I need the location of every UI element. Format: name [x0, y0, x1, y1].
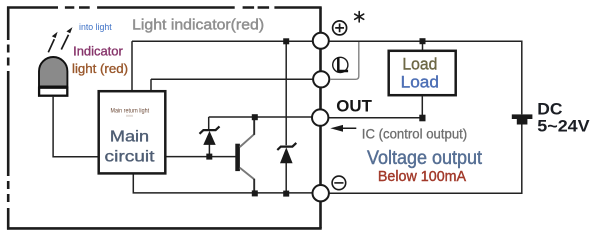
- transistor Q1 emitter lead: [253, 179, 255, 194]
- wire: drop from + rail into main circuit top: [131, 41, 133, 90]
- load box: [389, 51, 456, 95]
- transistor Q1 base bar: [235, 144, 240, 171]
- wire: + rail from T1 right to battery corner: [329, 41, 522, 114]
- svg-text:OUT: OUT: [336, 96, 372, 115]
- wire: LED to main circuit left: [53, 97, 98, 157]
- sensor enclosure frame: right edge / terminal bus: [319, 8, 322, 229]
- svg-text:into light: into light: [79, 22, 112, 32]
- wire: load bottom down to OUT line: [421, 96, 423, 117]
- wire: main circuit bottom to 0V rail: [133, 175, 312, 193]
- svg-text:Main return light: Main return light: [111, 108, 150, 115]
- svg-text:circuit: circuit: [105, 148, 156, 165]
- svg-text:Voltage output: Voltage output: [367, 148, 483, 169]
- LED indicator base: [39, 88, 67, 96]
- sensor enclosure dashed frame: left edge: [7, 7, 10, 230]
- sensor enclosure frame: bottom edge: [7, 227, 322, 230]
- svg-text:Below 100mA: Below 100mA: [378, 169, 466, 185]
- svg-text:Indicator: Indicator: [73, 43, 123, 58]
- main circuit box: [99, 91, 166, 173]
- wire: load top to + rail: [422, 41, 424, 50]
- wire: zener D2 vertical from + rail: [285, 41, 287, 145]
- svg-text:IC (control output): IC (control output): [362, 126, 467, 141]
- battery BT1 short plate: [517, 119, 528, 125]
- junction on 0V rail at zener D2: [283, 191, 289, 197]
- junction on + rail at load: [420, 38, 426, 44]
- wire: drop from T2 line into main circuit top: [150, 79, 152, 90]
- asterisk: [355, 12, 364, 22]
- transistor Q1 collector diagonal: [240, 134, 254, 147]
- junction on + rail at zener D2: [283, 38, 289, 44]
- wire: base line from main circuit to Q1 base: [167, 156, 236, 158]
- light arrow 1: [48, 39, 54, 52]
- zener D2 cathode bar: [277, 143, 296, 150]
- sensor enclosure dashed frame: top edge: [7, 7, 322, 230]
- junction at load bottom on OUT line: [419, 115, 425, 122]
- wire: gray link loop T2 to + rail: [331, 42, 359, 79]
- battery BT1 long plate: [512, 114, 533, 119]
- plus polarity symbol: [333, 21, 347, 35]
- zener D2 triangle: [280, 147, 293, 163]
- svg-text:Load: Load: [401, 72, 439, 91]
- main circuit faint subtitle: [126, 115, 133, 117]
- svg-text:Load: Load: [402, 55, 437, 74]
- terminal T1 plus: [313, 33, 329, 49]
- svg-text:Light indicator(red): Light indicator(red): [132, 16, 264, 33]
- wire: + rail from T1 left to drop at x=132: [53, 41, 522, 193]
- wire: zener D1 anode to base line: [208, 144, 210, 156]
- circled L timer symbol: [333, 57, 348, 72]
- wire: corner from OUT rail down to zener D1: [208, 117, 210, 130]
- wire: T2 line to drop at x=151: [151, 78, 313, 80]
- junction on base line at zener D1: [206, 154, 212, 160]
- svg-text:light (red): light (red): [72, 61, 128, 76]
- terminal T2: [313, 71, 329, 87]
- wire: OUT line from T3 to load bottom corner: [329, 117, 423, 119]
- minus polarity symbol: [332, 176, 346, 190]
- IC output arrow: [334, 127, 356, 129]
- wire: OUT rail inside enclosure: [209, 116, 312, 118]
- terminal T4 minus: [313, 185, 329, 201]
- zener D1 cathode bar: [200, 126, 220, 133]
- LED indicator dome: [39, 57, 67, 87]
- transistor Q1 collector lead: [253, 117, 255, 135]
- wire: zener D2 anode to 0V rail: [285, 163, 287, 194]
- zener D1 triangle: [203, 131, 215, 145]
- terminal T3 OUT: [312, 109, 328, 125]
- light arrow 2: [61, 35, 68, 50]
- junction on OUT rail at collector: [252, 114, 258, 120]
- junction on 0V rail at emitter: [252, 190, 258, 196]
- svg-text:5~24V: 5~24V: [537, 116, 589, 135]
- wire: battery bottom to 0V return: [329, 125, 522, 194]
- transistor Q1 emitter diagonal: [240, 168, 254, 180]
- svg-text:Main: Main: [110, 129, 149, 146]
